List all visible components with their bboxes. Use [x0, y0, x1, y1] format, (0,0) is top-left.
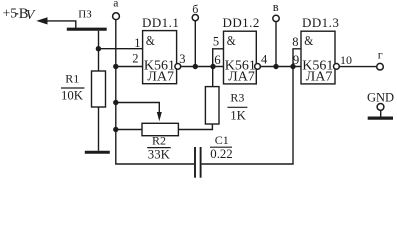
svg-text:R2: R2 [152, 133, 166, 147]
svg-text:&: & [146, 33, 155, 48]
svg-text:&: & [304, 33, 313, 48]
svg-text:+5: +5 [3, 6, 18, 21]
svg-text:10K: 10K [61, 88, 84, 102]
svg-text:DD1.3: DD1.3 [302, 15, 339, 30]
svg-text:2: 2 [132, 52, 138, 66]
svg-text:33K: 33K [148, 147, 171, 161]
svg-text:V: V [26, 8, 36, 23]
svg-text:1: 1 [134, 36, 140, 50]
svg-text:а: а [113, 0, 118, 9]
svg-text:6: 6 [214, 52, 221, 67]
svg-text:ЛА7: ЛА7 [147, 70, 174, 85]
svg-text:GND: GND [367, 90, 394, 104]
svg-text:ЛА7: ЛА7 [228, 70, 255, 85]
svg-text:DD1.2: DD1.2 [223, 15, 260, 30]
svg-text:5: 5 [213, 34, 219, 48]
svg-text:б: б [192, 2, 198, 16]
svg-text:ЛА7: ЛА7 [306, 70, 333, 85]
svg-text:8: 8 [292, 35, 298, 49]
svg-text:3: 3 [179, 52, 185, 66]
svg-text:C1: C1 [215, 133, 229, 147]
svg-text:DD1.1: DD1.1 [142, 15, 179, 30]
svg-text:ПЗ: ПЗ [78, 9, 92, 21]
svg-text:0.22: 0.22 [210, 147, 232, 161]
svg-text:&: & [227, 33, 236, 48]
svg-text:г: г [378, 47, 383, 61]
svg-text:4: 4 [261, 53, 268, 67]
svg-text:R1: R1 [65, 72, 79, 86]
svg-text:1K: 1K [230, 109, 246, 123]
svg-text:R3: R3 [230, 91, 244, 105]
svg-text:в: в [273, 0, 279, 14]
svg-text:9: 9 [293, 52, 300, 67]
svg-text:10: 10 [340, 53, 352, 67]
